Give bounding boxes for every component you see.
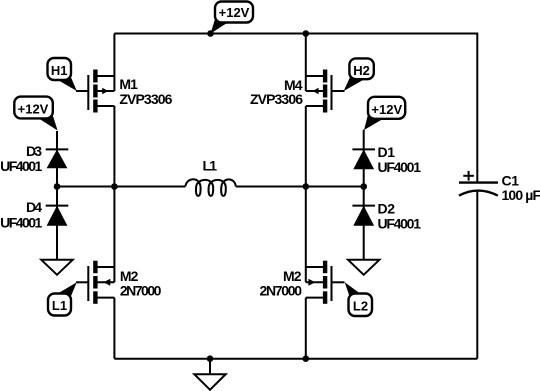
svg-text:100 µF: 100 µF [502,187,540,203]
svg-text:D3: D3 [26,143,42,159]
svg-text:L1: L1 [52,298,67,313]
svg-text:D1: D1 [378,144,396,160]
svg-text:ZVP3306: ZVP3306 [119,91,172,107]
svg-text:UF4001: UF4001 [0,158,42,174]
svg-text:UF4001: UF4001 [378,159,422,175]
svg-text:2N7000: 2N7000 [120,283,162,299]
svg-text:M1: M1 [119,76,138,92]
svg-text:+12V: +12V [371,102,402,117]
svg-text:H1: H1 [51,63,68,78]
svg-text:UF4001: UF4001 [0,214,42,230]
svg-text:D2: D2 [378,201,396,217]
svg-text:H2: H2 [353,63,370,78]
svg-text:D4: D4 [26,199,42,215]
svg-text:ZVP3306: ZVP3306 [250,91,303,107]
svg-text:+12V: +12V [219,5,250,20]
svg-text:UF4001: UF4001 [378,216,422,232]
svg-text:2N7000: 2N7000 [260,283,303,299]
svg-text:L2: L2 [353,298,368,313]
svg-text:+12V: +12V [18,101,49,116]
svg-text:L1: L1 [203,158,218,174]
